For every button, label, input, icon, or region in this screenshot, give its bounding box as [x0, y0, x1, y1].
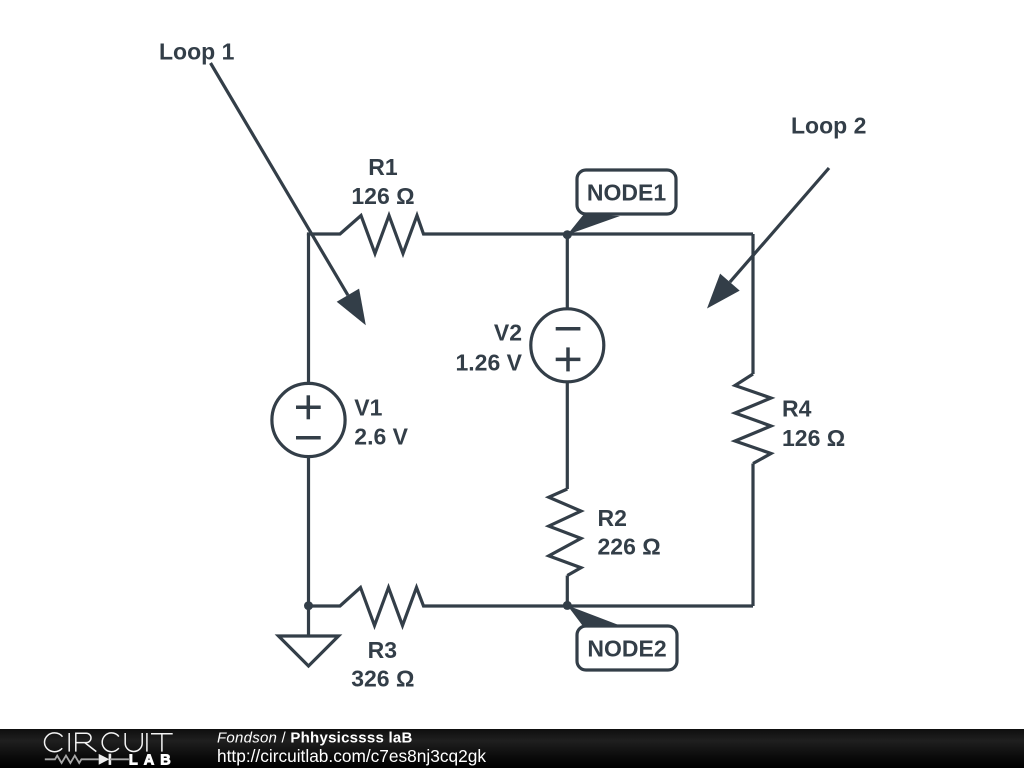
logo: CIRCUIT LAB: [45, 733, 173, 752]
node NODE1: [563, 170, 676, 239]
svg-text:126 Ω: 126 Ω: [351, 183, 414, 209]
logo letter C: [102, 733, 121, 752]
logo letter U: [125, 733, 142, 751]
svg-text:126 Ω: 126 Ω: [782, 425, 845, 451]
wire: V2 to R2: [566, 382, 569, 489]
logo letter R: [76, 733, 97, 751]
svg-text:V2: V2: [494, 319, 522, 345]
logo: resistor + diode glyph: [45, 754, 129, 765]
svg-text:R2: R2: [598, 505, 627, 531]
wire: top rail left stub: [309, 234, 312, 236]
wire: R1 to NODE1: [455, 232, 567, 235]
junction: ground node dot: [304, 601, 313, 610]
annotation: Loop 1 label and arrow: [159, 39, 366, 326]
svg-text:LAB: LAB: [129, 752, 177, 768]
wire: left rail (top corner to V1): [307, 234, 310, 384]
ground: [279, 606, 339, 666]
wire: V1 to ground node: [307, 457, 310, 606]
svg-text:R4: R4: [782, 396, 812, 422]
svg-text:2.6 V: 2.6 V: [354, 424, 408, 450]
svg-text:R1: R1: [368, 154, 398, 180]
svg-text:1.26 V: 1.26 V: [456, 349, 523, 375]
svg-text:Loop 1: Loop 1: [159, 39, 235, 65]
svg-text:http://circuitlab.com/c7es8nj3: http://circuitlab.com/c7es8nj3cq2gk: [217, 746, 486, 766]
voltage source V2: [456, 309, 604, 382]
logo letter I: [146, 733, 148, 752]
annotation: Loop 2 label and arrow: [707, 113, 866, 309]
logo letter I: [68, 733, 70, 752]
wire: R2 to NODE2: [566, 576, 569, 607]
svg-text:Fondson / Phhysicssss laB: Fondson / Phhysicssss laB: [217, 730, 413, 747]
svg-text:NODE2: NODE2: [587, 636, 666, 662]
svg-text:NODE1: NODE1: [587, 180, 666, 206]
footer bar: [0, 729, 1024, 768]
wire: NODE1 to V2: [566, 234, 569, 309]
resistor R2: [549, 489, 661, 576]
logo letter C: [45, 733, 65, 752]
svg-text:Loop 2: Loop 2: [791, 113, 866, 139]
voltage source V1: [272, 383, 409, 456]
resistor R4: [735, 374, 845, 464]
wire: R3 to NODE2: [455, 604, 567, 607]
wire: right rail top (corner to R4): [751, 234, 754, 374]
svg-text:226 Ω: 226 Ω: [598, 534, 661, 560]
logo letter T: [151, 734, 173, 752]
svg-text:326 Ω: 326 Ω: [351, 666, 414, 692]
resistor R3: [311, 588, 455, 692]
wire: right rail bottom (R4 to corner): [751, 464, 754, 607]
svg-text:V1: V1: [354, 395, 382, 421]
node NODE2: [563, 601, 677, 670]
svg-text:R3: R3: [368, 637, 397, 663]
resistor R1: [311, 154, 455, 254]
wire: NODE1 to top-right corner: [567, 232, 753, 235]
wire: NODE2 to bottom-right corner: [567, 604, 753, 607]
